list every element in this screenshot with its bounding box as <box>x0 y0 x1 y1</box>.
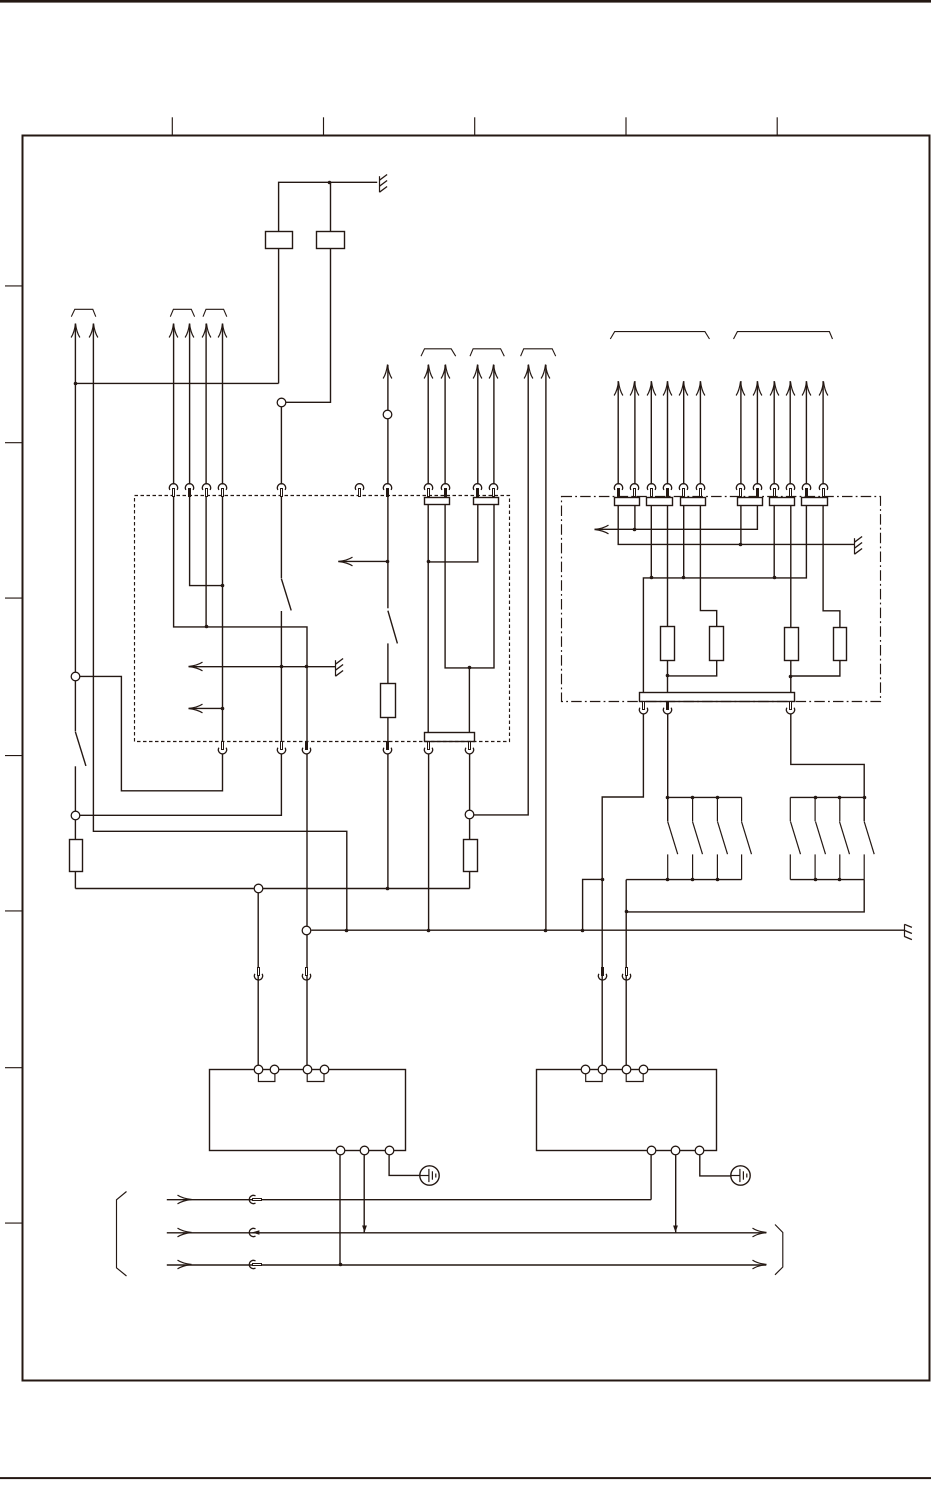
wire: pin1 to chassis ground E3 <box>618 506 854 545</box>
fuse F4 <box>70 840 83 872</box>
relay bank K2 bottom bus and return <box>626 880 864 912</box>
junction: S1 lead on tap1 line <box>280 665 284 669</box>
arrow: PCB2 group2 pin 3 <box>770 382 779 396</box>
connector pin PCB1 top 10 <box>473 484 481 497</box>
terminal TB2-1 <box>581 1065 590 1074</box>
connector pin inline TB1 neutral <box>302 968 310 981</box>
wire: CN2 shafts <box>478 365 494 485</box>
wire: PCB2 group2 shaft 6 <box>822 381 824 484</box>
fuse F3 <box>381 684 396 718</box>
relay bank K2 top bus <box>790 796 864 798</box>
wire: pin3 drop <box>650 506 652 578</box>
junction: riser branch <box>601 878 605 882</box>
link TB2 1-2 <box>586 1074 603 1082</box>
wire: riser branch to neutral bus <box>583 879 603 930</box>
relay bank K1 bottom bus <box>626 880 741 1065</box>
wire: PCB2 group1 shaft 4 <box>667 381 669 484</box>
junction: K1 out stub2 <box>691 878 695 882</box>
arrow: signal out 1 <box>169 324 178 338</box>
connector block CN11 on PCB2 <box>802 498 828 506</box>
connector pin inline field line 3 <box>249 1260 261 1268</box>
arrow: CN out 2 <box>441 365 450 379</box>
junction: K1 feed <box>666 796 670 800</box>
live bus to fuse F5 <box>75 888 469 890</box>
relay contact K2-2 <box>815 797 825 879</box>
junction: link on pin8 line <box>427 560 431 564</box>
arrow: power line out L <box>71 324 80 338</box>
terminal node E (circle) <box>465 810 474 819</box>
wire: PCB1 pin13 to node B <box>80 754 282 816</box>
arrow: aux out 1 <box>524 365 533 379</box>
field wiring bracket right <box>775 1225 783 1275</box>
connector pin inline field line 2 <box>249 1228 259 1236</box>
junction: K1 out stub3 <box>716 878 720 882</box>
connector pin CN12-b <box>663 702 671 714</box>
resistor R1 <box>661 627 675 661</box>
link TB1 1-2 <box>258 1074 275 1082</box>
junction: mid tap of link <box>468 666 472 670</box>
connector pin PCB2 top 12 <box>819 484 827 497</box>
terminal node B (circle) <box>71 811 80 820</box>
connector pin PCB2 top 10 <box>786 484 794 497</box>
wire: pin10 to resistor R3 <box>790 506 792 628</box>
harness bracket B4 <box>421 349 456 356</box>
junction: pin14 run on tap1 line <box>305 665 309 669</box>
junction: R3/R4 link <box>789 675 793 679</box>
wire: pin4 through line <box>222 496 224 741</box>
connector block CN12 on PCB2 <box>640 693 795 702</box>
arrow: PCB2 group1 pin 3 <box>647 382 656 396</box>
arrow: PCB2 internal tap <box>595 525 609 534</box>
wire: PCB1 pin17 to node E <box>469 754 471 811</box>
junction: pin5 on bus <box>682 576 686 580</box>
arrow: field line 3 direction <box>178 1260 192 1269</box>
control PCB1 (dashed outline) <box>135 496 510 742</box>
wire: TB2-6 down to field line 2 <box>675 1155 677 1233</box>
connector pin PCB1 top 6 spare <box>355 484 363 497</box>
connector block CN4 on PCB1 <box>474 498 499 505</box>
harness bracket B2 <box>170 309 194 316</box>
terminal TB2-earth <box>695 1146 704 1155</box>
wire: arrow shaft to switch node A <box>74 324 76 672</box>
connector pin PCB2 top 5 <box>679 484 687 497</box>
connector pin CN12-c <box>786 702 794 714</box>
wire: F2 down to node <box>286 248 331 402</box>
wire: PCB2 group2 shaft 4 <box>789 381 791 484</box>
wire: field line 1 up to TB2-5 <box>650 1155 652 1200</box>
junction: K2 bus stub3 <box>838 796 842 800</box>
junction: pin9 on bus <box>773 576 777 580</box>
link TB1 3-4 <box>307 1074 324 1082</box>
wire: PCB2 group2 shaft 5 <box>805 381 807 484</box>
main switch S3 lower lead <box>74 766 76 811</box>
field line 3 <box>167 1264 766 1266</box>
wire: pin9 drop <box>773 506 775 578</box>
wire: PCB2 group1 shaft 5 <box>683 381 685 484</box>
connector pin PCB2 top 3 <box>647 484 655 497</box>
wire: pin5 drop <box>683 506 685 578</box>
field line 1 <box>167 1199 651 1201</box>
relay contact K1-2 <box>693 797 703 879</box>
wire: pin3 internal <box>205 496 207 627</box>
wire: pin4 to resistor R1 <box>667 506 669 627</box>
arrow: field line 2 direction <box>178 1228 192 1237</box>
terminal node D (circle) on neutral bus <box>302 926 311 935</box>
connector pin PCB1 top 8 <box>424 484 432 497</box>
junction: branch on neutral bus <box>581 929 585 933</box>
relay contact K2-4 <box>864 822 874 880</box>
wire: PCB1 pin14 drop to node D <box>306 754 308 926</box>
wire: CN12-c to bank K2 feed <box>791 714 864 822</box>
chassis ground E3 <box>855 537 863 555</box>
junction: K2 out stub2 <box>814 878 818 882</box>
arrow: internal tap 2 <box>189 704 203 713</box>
wire: pin1 internal run <box>174 496 307 741</box>
arrow: PCB2 group2 pin 5 <box>802 382 811 396</box>
arrow: aux out 2 <box>541 365 550 379</box>
relay contact K2-1 <box>790 797 800 879</box>
wire: node C down to TB1 <box>257 893 259 1065</box>
wire: shaft 2 to PCB1 pin <box>189 324 191 485</box>
switch S1 upper lead <box>280 496 282 578</box>
wire: shaft 3 to PCB1 pin <box>205 324 207 485</box>
resistor R2 <box>710 627 724 661</box>
wire: aux shaft 2 down to neutral bus <box>545 365 547 930</box>
arrow: CN out 3 <box>473 365 482 379</box>
protective earth PE2 <box>731 1166 750 1185</box>
wire: pin12 to resistor R4 <box>823 506 840 628</box>
harness bracket B3 <box>203 309 227 316</box>
junction: K2 return joins K1 drop <box>625 910 629 914</box>
wire: pin8 internal <box>427 505 429 733</box>
terminal TB1-1 <box>254 1065 263 1074</box>
wire: TB2 earth lead <box>700 1155 731 1176</box>
terminal TB2-2 <box>598 1065 607 1074</box>
arrow: internal tap 3 <box>339 557 353 566</box>
switch S1 lower lead <box>280 611 282 741</box>
junction: tap2 on pin4 line <box>221 707 225 711</box>
field wiring bracket left <box>117 1192 127 1277</box>
wire: PCB1 pin15 drop <box>387 754 389 889</box>
wire: pin2 internal <box>190 496 223 585</box>
connector pin PCB2 top 8 <box>753 484 761 497</box>
wire: pin6 to resistor R2 <box>700 506 716 627</box>
connector pin PCB2 top 4 <box>663 484 671 497</box>
connector block CN5 on PCB1 <box>425 733 475 742</box>
arrow: PCB2 group2 pin 1 <box>736 382 745 396</box>
wire: link tap down to CN5 <box>468 668 470 733</box>
switch S1 blade <box>281 579 291 611</box>
wire: PCB2 group1 shaft 2 <box>634 381 636 484</box>
terminal node (open circle) feeding PCB1 pin <box>277 398 286 407</box>
arrow: PCB2 group1 pin 4 <box>663 382 672 396</box>
harness bracket B6 <box>521 349 556 356</box>
junction: tap3 on pin7 line <box>386 560 390 564</box>
wire: F1 down to AC bus <box>278 248 280 383</box>
arrow: power line out N <box>89 324 98 338</box>
connector pin PCB1 top 9 <box>441 484 449 497</box>
connector block CN7 on PCB2 <box>647 498 673 506</box>
junction: AC bus at L1 shaft <box>74 382 78 386</box>
arrow: internal tap 1 to chassis <box>189 662 203 671</box>
arrow: field line 2 right end <box>753 1228 767 1237</box>
connector pin PCB1 bottom 13 <box>277 742 285 754</box>
junction: K2 out stub3 <box>838 878 842 882</box>
wire: tap line to pin8 <box>595 506 758 530</box>
fuse F1 <box>266 232 293 249</box>
arrow: CN out 1 <box>424 365 433 379</box>
junction: pin2 on tap line <box>633 528 637 532</box>
connector pin inline bank drop <box>622 968 630 981</box>
wire: node E to fuse F5 <box>469 819 471 839</box>
resistor R4 <box>834 628 847 661</box>
wire: pin2 drop <box>634 506 636 530</box>
terminal node A (circle) <box>71 672 80 681</box>
arrow: field line 1 direction <box>178 1195 192 1204</box>
terminal TB2-3 <box>622 1065 631 1074</box>
neutral bus <box>311 929 904 931</box>
wire: TB1 earth lead <box>389 1155 420 1175</box>
terminal block TB2 <box>537 1070 717 1151</box>
junction: pin3 on pin1 run <box>205 625 209 629</box>
arrow: PCB2 group1 pin 1 <box>614 382 623 396</box>
junction: F2 branch on ground wire <box>328 181 332 185</box>
connector pin PCB1 bottom 15 <box>383 742 391 754</box>
switch S2 upper lead <box>387 496 389 608</box>
junction: K1 bus stub3 <box>716 796 720 800</box>
wire: CN12-a to heater feed riser <box>602 714 643 1065</box>
junction: pin3 on bus <box>650 576 654 580</box>
connector pin inline heater feed <box>598 968 606 981</box>
terminal TB2-5 <box>647 1146 656 1155</box>
connector pin inline field line 1 <box>249 1195 261 1203</box>
connector pin PCB1 top 1 <box>169 484 177 497</box>
fuse F2 <box>317 232 345 249</box>
fuse F5 <box>464 840 478 872</box>
junction: N-arrow crank on neutral bus <box>345 929 349 933</box>
arrow: field line 3 right end <box>753 1260 767 1269</box>
wire: shaft 1 to PCB1 pin <box>173 324 175 485</box>
wire: F4 to live bus <box>74 872 76 889</box>
terminal TB1-5 <box>336 1146 345 1155</box>
terminal TB1-6 <box>360 1146 369 1155</box>
main switch S3 blade <box>75 732 86 766</box>
junction: pin2 joins pin4 line <box>221 584 225 588</box>
arrow: PCB2 group1 pin 2 <box>630 382 639 396</box>
connector pin CN12-a <box>639 702 647 714</box>
wire: TB1-5 down to field line 3 <box>339 1155 341 1265</box>
connector pin PCB2 top 9 <box>770 484 778 497</box>
wire: PCB1 pin16 drop <box>428 754 430 931</box>
chassis ground E4 <box>905 924 912 939</box>
wire: F3 to pin15 <box>387 717 389 741</box>
junction: pin16 on neutral bus <box>427 929 431 933</box>
wire: AC bus to arrow L1 shaft <box>75 382 278 384</box>
wire: tap1 line to ground E2 <box>189 666 336 668</box>
connector pin PCB2 top 6 <box>696 484 704 497</box>
switch S2 blade <box>388 611 398 644</box>
junction: K2 feed <box>863 796 867 800</box>
wire: PCB2 group1 shaft 3 <box>650 381 652 484</box>
wire: PCB1 pin12 loop to switch node A <box>80 676 223 790</box>
relay contact K2-3 <box>840 797 850 879</box>
wire: fuse F1/F2 tops to chassis ground <box>279 182 378 232</box>
terminal TB1-4 <box>320 1065 329 1074</box>
link TB2 3-4 <box>626 1074 643 1082</box>
arrow: PCB2 group2 pin 6 <box>819 382 828 396</box>
arrow joint: TB2-6 to line 2 <box>673 1226 678 1233</box>
connector pin PCB2 top 1 <box>614 484 622 497</box>
connector block CN10 on PCB2 <box>770 498 795 506</box>
connector pin PCB2 top 2 <box>630 484 638 497</box>
arrow: PCB2 group1 pin 6 <box>696 382 705 396</box>
connector pin PCB1 top 4 <box>218 484 226 497</box>
wire: PCB2 bus line to CN12 <box>643 506 806 693</box>
connector block CN3 on PCB1 <box>425 498 450 505</box>
connector pin PCB2 top 7 <box>736 484 744 497</box>
switch S2 lower lead <box>387 643 389 683</box>
wire: PCB2 group1 shaft 1 <box>617 381 619 484</box>
connector pin PCB1 bottom 16 <box>424 742 432 754</box>
wire: pin7 drop <box>740 506 742 545</box>
arrow: PCB2 group2 pin 2 <box>753 382 762 396</box>
junction: shaft2 on neutral bus <box>544 929 548 933</box>
harness bracket B7 <box>610 332 709 339</box>
connector pin PCB1 top 11 <box>489 484 497 497</box>
wire: tap2 line <box>189 707 223 709</box>
relay contact K1-3 <box>717 797 727 879</box>
junction: K1 out stub1 <box>666 878 670 882</box>
connector pin PCB1 bottom 14 <box>302 742 310 754</box>
wire: aux shaft 1 down to fuse F5 node <box>474 365 528 815</box>
connector block CN9 on PCB2 <box>738 498 763 506</box>
connector pin PCB1 top 3 <box>202 484 210 497</box>
connector block CN6 on PCB2 <box>615 498 640 506</box>
arrow: signal out 4 <box>218 324 227 338</box>
wire: node to PCB1 pin <box>387 419 389 484</box>
wire: PCB2 group2 shaft 3 <box>773 381 775 484</box>
wire: pin10/pin8 link <box>428 505 478 562</box>
connector block CN8 on PCB2 <box>681 498 706 506</box>
arrow: signal out 3 <box>202 324 211 338</box>
wire: R3 bottom to CN12 and R4 link <box>791 661 840 693</box>
arrow: PCB2 group2 pin 4 <box>786 382 795 396</box>
connector pin PCB1 bottom 17 <box>465 742 473 754</box>
wire: F5 to live bus <box>469 871 471 888</box>
terminal node on sensor line <box>383 410 392 419</box>
field line 2 <box>167 1232 766 1234</box>
relay contact K1-1 <box>668 822 678 880</box>
terminal TB1-earth <box>385 1146 394 1155</box>
arrow: sensor line single <box>383 365 392 379</box>
wire: node down to PCB1 pin <box>280 407 282 485</box>
resistor R3 <box>785 628 799 661</box>
terminal node C (circle) on live bus <box>254 884 263 893</box>
chassis ground E1 <box>380 175 388 193</box>
arrow: PCB2 group1 pin 5 <box>679 382 688 396</box>
terminal TB1-2 <box>270 1065 279 1074</box>
wire: arrow shaft N down to crank <box>93 324 346 931</box>
terminal TB1-3 <box>303 1065 312 1074</box>
harness bracket B5 <box>470 349 504 356</box>
wire: CN1 shafts <box>428 365 445 485</box>
wire: shaft 4 to PCB1 pin <box>222 324 224 485</box>
terminal block TB1 <box>210 1070 406 1151</box>
junction: R1/R2 link <box>666 674 670 678</box>
wire: node B to fuse F4 <box>74 820 76 840</box>
wire: single arrow shaft <box>387 365 389 411</box>
wire: node D down to TB1 <box>306 935 308 1066</box>
chassis ground E2 <box>336 659 344 677</box>
connector pin PCB2 top 11 <box>802 484 810 497</box>
connector pin PCB1 bottom 12 <box>218 742 226 754</box>
connector pin PCB1 top 2 <box>185 484 193 497</box>
arrow: signal out 2 <box>185 324 194 338</box>
wire: PCB2 group2 shaft 1 <box>740 381 742 484</box>
wire: TB1-6 down to field line 2 <box>363 1155 365 1233</box>
power PCB2 (dash-dot outline) <box>562 497 881 702</box>
wire: CN12-b to bank K1 feed <box>667 714 669 822</box>
junction: K1 bus stub2 <box>691 796 695 800</box>
wire: PCB2 group1 shaft 6 <box>699 381 701 484</box>
wire: pin9/pin11 link <box>445 505 494 668</box>
connector pin inline TB1 live <box>254 968 262 981</box>
junction: K2 bus stub2 <box>814 796 818 800</box>
connector pin PCB1 top 5 <box>277 484 285 497</box>
harness bracket B8 <box>734 332 833 339</box>
wire: tap3 line <box>338 560 388 562</box>
relay contact K1-4 <box>742 797 752 879</box>
terminal TB2-4 <box>639 1065 648 1074</box>
wire: PCB2 group2 shaft 2 <box>756 381 758 484</box>
main switch S3 upper lead <box>74 681 76 732</box>
terminal TB2-6 <box>671 1146 680 1155</box>
junction: pin15 drop on live bus <box>386 887 390 891</box>
junction: pin7 on ground line <box>739 543 743 547</box>
wire: R1 bottom to CN12 and R2 link <box>668 660 717 692</box>
harness bracket B1 <box>71 309 96 316</box>
relay bank K1 top bus <box>668 796 742 798</box>
connector pin PCB1 top 7 <box>383 484 391 497</box>
arrow joint: TB1-6 to line 2 <box>362 1226 367 1233</box>
protective earth PE1 <box>420 1166 439 1185</box>
arrow: CN out 4 <box>489 365 498 379</box>
junction: TB1-5 on field line 3 <box>339 1263 343 1267</box>
